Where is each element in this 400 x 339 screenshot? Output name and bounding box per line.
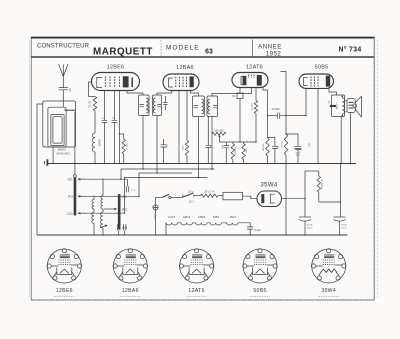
wire IF2 primary down <box>198 117 200 178</box>
wire antenna to cadre coil <box>62 90 64 107</box>
tube V3 12AT6 envelope <box>232 73 268 88</box>
wire network rail <box>220 141 257 143</box>
resistor filter 1850 <box>318 171 320 176</box>
wire rectifier output <box>282 198 306 200</box>
capacitor electrolytic 2 50uF 150V <box>334 216 346 218</box>
V2 cathode <box>169 78 174 87</box>
svg-text:CONSTRUCTEUR: CONSTRUCTEUR <box>37 43 90 49</box>
wire coil col1 <box>93 196 95 235</box>
svg-text:12BA6: 12BA6 <box>122 288 139 294</box>
wire plug to bus <box>155 210 157 235</box>
coil oscillator column 2 <box>101 196 103 210</box>
heater 12BA6 <box>181 223 193 225</box>
svg-text:12AT6: 12AT6 <box>168 216 176 219</box>
svg-text:C.P: C.P <box>132 189 136 191</box>
wire to rectifier <box>243 196 258 199</box>
svg-text:35W4: 35W4 <box>260 182 278 188</box>
V3 diode plates <box>248 75 250 78</box>
resistor plate load 300000 <box>267 116 269 138</box>
socket 12BE6 pinout <box>47 249 82 283</box>
svg-text:25 V: 25 V <box>296 155 301 157</box>
svg-text:12BA6: 12BA6 <box>176 65 194 71</box>
wire bottom return bus <box>37 234 348 236</box>
svg-text:GO: GO <box>67 212 73 216</box>
svg-text:PO: PO <box>68 195 73 199</box>
wire coil col2 <box>102 179 104 235</box>
resistor grid leak <box>284 134 287 155</box>
V4 plate block <box>326 76 330 87</box>
resistor AVC 51500 <box>255 88 257 101</box>
svg-text:1 MΩ: 1 MΩ <box>246 148 248 153</box>
V3 grid block <box>243 76 247 85</box>
svg-text:50B5: 50B5 <box>213 216 219 219</box>
wire IF1 primary down <box>142 116 144 170</box>
wire to voltage selector <box>171 196 183 198</box>
svg-text:50 μF: 50 μF <box>341 224 347 226</box>
svg-text:200: 200 <box>277 145 279 149</box>
heater 12AT6 <box>166 223 178 225</box>
switch contact arrow S1b <box>104 208 116 210</box>
svg-text:500: 500 <box>329 99 331 103</box>
V2 plate block <box>190 76 194 87</box>
switch contact arrow PO <box>79 195 86 197</box>
switch wafer S1a <box>74 178 76 215</box>
wire V2 plate <box>191 91 199 97</box>
wire heater chain left end <box>165 223 167 235</box>
svg-text:500 000: 500 000 <box>214 129 224 133</box>
wire IF1 secondary down <box>156 116 158 174</box>
tube V2 12BA6 envelope <box>163 74 199 91</box>
tube V1 12BE6 envelope <box>92 73 140 91</box>
cadre winding 3 <box>51 115 64 146</box>
trimmer capacitor <box>126 186 128 192</box>
resistor 25000 <box>119 134 123 139</box>
wire speaker return <box>350 112 352 163</box>
V5 plate bar <box>261 194 264 203</box>
IF transformer 2 primary can <box>193 96 205 117</box>
wire to oscillator coil <box>94 111 96 133</box>
wire filtered B+ <box>319 201 341 203</box>
antenna <box>59 64 68 87</box>
wire V2 screen / resistor 1M <box>186 91 188 141</box>
heater chain links <box>178 222 227 224</box>
svg-text:12BE6: 12BE6 <box>198 216 206 219</box>
svg-text:35W4: 35W4 <box>230 216 237 219</box>
wire IF2 secondary down <box>211 117 213 170</box>
wire transformer secondary down <box>340 117 342 164</box>
svg-text:50B5: 50B5 <box>253 288 266 294</box>
svg-text:N° 734: N° 734 <box>339 45 362 53</box>
svg-text:1850Ω 1W: 1850Ω 1W <box>322 178 324 189</box>
svg-text:OC: OC <box>67 178 73 182</box>
capacitor padder 1 <box>118 224 120 230</box>
wire GO row <box>86 212 125 214</box>
svg-text:12BE6: 12BE6 <box>56 288 73 294</box>
svg-text:12BE6: 12BE6 <box>107 65 125 71</box>
svg-text:150.000: 150.000 <box>282 140 284 148</box>
svg-text:BA553: BA553 <box>336 102 339 109</box>
coil cadre primary <box>65 109 75 110</box>
wire V2 cathode down <box>178 91 180 164</box>
V2 grids <box>175 77 177 87</box>
capacitor cathode 50uF <box>286 134 298 146</box>
svg-text:51.500: 51.500 <box>251 103 253 110</box>
wire V4 screen <box>317 88 319 163</box>
svg-text:22.000: 22.000 <box>90 100 92 108</box>
V1 grids <box>104 77 106 88</box>
wire AVC step A <box>121 169 215 179</box>
wire V1 plate <box>127 91 143 96</box>
wire V4 grid <box>305 88 307 115</box>
svg-text:BA552: BA552 <box>58 148 67 152</box>
svg-text:100: 100 <box>222 144 224 148</box>
coil oscillator padder column 1 <box>92 200 94 210</box>
capacitor 100 <box>225 142 227 146</box>
wire PO row <box>86 195 139 197</box>
V1 cathode <box>97 78 102 88</box>
resistor 1M <box>243 142 245 144</box>
svg-text:117 v: 117 v <box>189 201 195 203</box>
wire AVC step B <box>139 173 192 196</box>
svg-text:150: 150 <box>309 142 311 146</box>
socket 35W4 pinout <box>311 249 346 283</box>
capacitor antenna series 50pF <box>59 88 68 90</box>
heater 12BE6 <box>196 223 208 225</box>
svg-text:35W4: 35W4 <box>321 288 336 294</box>
IF transformer 2 secondary can <box>207 96 218 117</box>
capacitor electrolytic 50uF 150V <box>299 216 311 218</box>
wire IF2 secondary to V3 grid <box>212 88 251 97</box>
connector terminal <box>46 159 48 166</box>
V4 grids <box>310 77 312 87</box>
cadre winding 4 <box>53 117 62 143</box>
wire V1 grid to bus <box>118 91 120 164</box>
wire left loop return <box>37 104 43 235</box>
coil oscillator <box>92 133 95 152</box>
socket 12BA6 pinout <box>113 249 148 283</box>
wire AVC step C <box>125 178 208 214</box>
svg-text:ANNEE: ANNEE <box>258 43 282 50</box>
wire filter node <box>304 171 306 217</box>
tube V4 50B5 envelope <box>299 74 334 88</box>
V1 plate block <box>123 76 129 87</box>
wire IF1 secondary to V2 grid <box>157 91 172 96</box>
IF transformer 1 secondary can <box>153 95 162 116</box>
svg-text:GO: GO <box>122 226 128 230</box>
heater 35W4 <box>227 223 239 225</box>
cadre winding 2 <box>48 107 66 147</box>
wire chassis bus (upper ground rail) <box>49 163 357 165</box>
switch wafer S1b <box>118 195 120 230</box>
output transformer <box>332 95 345 117</box>
svg-text:25.000: 25.000 <box>126 142 128 149</box>
V3 cathode <box>241 77 246 85</box>
capacitor padding 500 <box>163 139 165 145</box>
capacitor 0.1uF <box>247 227 253 229</box>
svg-text:12AT6: 12AT6 <box>188 288 204 294</box>
capacitor padder 2 <box>124 224 126 230</box>
wire OC row <box>86 178 128 180</box>
svg-text:110 v: 110 v <box>188 191 194 193</box>
V3 plate block <box>257 75 262 86</box>
svg-text:50μF: 50μF <box>296 152 302 154</box>
svg-text:50 Ω 7 W: 50 Ω 7 W <box>204 191 215 194</box>
heater 50B5 <box>210 223 222 225</box>
tube V5 35W4 envelope <box>257 191 282 207</box>
svg-text:150 V: 150 V <box>341 228 347 230</box>
V5 cathode <box>270 194 275 203</box>
cadre frame antenna outer loop <box>43 101 76 147</box>
svg-text:0,1μF: 0,1μF <box>254 229 261 232</box>
trimmer arrow <box>100 225 107 227</box>
switch voltage selector <box>182 195 184 198</box>
svg-text:300.000: 300.000 <box>263 143 265 151</box>
svg-text:BA562: BA562 <box>99 138 102 146</box>
svg-text:12AT6: 12AT6 <box>246 65 263 71</box>
switch contact arrow GO <box>79 212 86 214</box>
speaker <box>347 99 355 113</box>
border frame + header (decorative) <box>31 37 374 300</box>
wire transformer to speaker <box>345 101 347 112</box>
svg-text:50 μF: 50 μF <box>307 224 313 226</box>
svg-text:12BA6: 12BA6 <box>183 216 191 219</box>
volume tap arrow <box>219 136 221 142</box>
svg-text:63: 63 <box>205 49 213 56</box>
capacitor 40 <box>207 117 209 146</box>
wire V3 plate <box>263 88 268 116</box>
ballast resistor box <box>218 195 223 197</box>
resistor 100 <box>239 88 241 94</box>
socket 50B5 pinout <box>243 249 278 283</box>
wire V4 plate <box>329 88 337 95</box>
capacitor 200 <box>268 138 275 147</box>
wire grid leak <box>281 72 287 135</box>
IF transformer 1 primary can <box>139 95 150 116</box>
svg-text:100: 100 <box>232 96 237 98</box>
svg-text:500: 500 <box>167 143 169 147</box>
wire V1 cathode stub <box>89 82 92 97</box>
capacitor 50 <box>103 91 105 121</box>
svg-text:50B5: 50B5 <box>315 65 329 71</box>
wire B+ column <box>340 164 342 218</box>
capacitor 70 <box>113 91 115 121</box>
resistor 500000 <box>232 142 234 144</box>
mains plug <box>153 205 158 210</box>
resistor 22000 <box>89 97 97 112</box>
wire cadre to bus <box>52 147 54 164</box>
svg-text:1 MΩ: 1 MΩ <box>183 145 185 151</box>
svg-text:150 V: 150 V <box>307 228 313 230</box>
svg-text:IMP(B.445): IMP(B.445) <box>56 151 69 155</box>
svg-text:MARQUETT: MARQUETT <box>93 47 153 58</box>
wire heater chain right end <box>238 223 250 227</box>
capacitor grid 12BA6 <box>164 96 166 102</box>
switch contact arrow OC <box>79 178 86 180</box>
svg-text:20 000: 20 000 <box>272 107 280 111</box>
svg-text:50: 50 <box>69 88 72 91</box>
svg-text:MODELE: MODELE <box>166 45 200 52</box>
svg-text:1952: 1952 <box>266 51 282 58</box>
svg-text:500.000: 500.000 <box>235 146 237 154</box>
V4 cathode <box>304 78 308 86</box>
wire cadre secondary to band switch <box>74 112 76 175</box>
switch mains <box>155 197 157 204</box>
socket 12AT6 pinout <box>179 249 214 283</box>
